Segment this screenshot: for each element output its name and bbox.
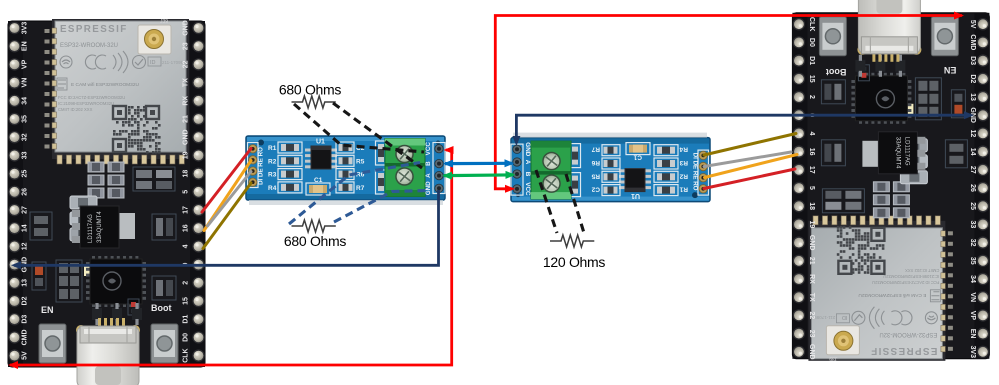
arrowhead red into module2 VCC	[505, 185, 515, 193]
wire gray: module1 DE toward pin16	[208, 172, 252, 227]
wire red 5V: right ESP32 5V along top, down to module2 VCC	[495, 16, 962, 189]
arrowhead navy into module2 GND	[512, 136, 520, 146]
dashed black pointer lower: across terminal to A row	[333, 103, 422, 168]
arrowhead red at right 5V pin	[954, 12, 964, 20]
arrowhead red at left 5V pin	[8, 361, 18, 369]
wire orange: ESP32-left pin16 to module1 RE	[204, 161, 251, 231]
svg-text:120 Ohms: 120 Ohms	[543, 254, 605, 270]
wire blue B line: module1 B to module2 A	[445, 162, 512, 166]
arrowhead green into module1 A	[442, 172, 452, 180]
dashed blue pointer to GND side	[334, 191, 429, 223]
wire green A line: module1 A to module2 B	[444, 173, 513, 177]
dashed blue pointer to R6	[289, 163, 420, 225]
wire navy GND: module1 GND down, across to left ESP32 GND	[14, 190, 439, 265]
arrowhead navy at left GND pin	[11, 261, 21, 269]
svg-text:680 Ohms: 680 Ohms	[284, 233, 346, 249]
annotation: 120 Ohms resistor symbol	[550, 235, 594, 247]
svg-text:680 Ohms: 680 Ohms	[279, 82, 341, 98]
arrowhead blue into module2 A	[505, 159, 515, 167]
wire red: ESP32-left pin17 to module1 RO	[202, 149, 251, 213]
annotation: bottom 680 Ohms resistor symbol (blue)	[292, 220, 336, 232]
wire olive: module2 DI to ESP32-right pin4	[704, 134, 796, 156]
dashed black pointer terminal screw B	[536, 170, 557, 233]
arrowhead red into module1 VCC	[444, 146, 454, 154]
RS485 module 1	[246, 136, 445, 205]
wire gray: module2 DE to ESP32-right pin16	[704, 152, 791, 167]
wire red 5V: left ESP32 5V along bottom, up to module1 VCC	[10, 150, 452, 365]
RS485 module 2 (rotated 180)	[511, 133, 710, 202]
annotation: top 680 Ohms resistor symbol	[292, 96, 336, 108]
wire olive: ESP32-left pin4 to module1 DI	[203, 183, 251, 249]
wire red: module2 RO to ESP32-right pin17	[704, 169, 795, 189]
wire orange: module2 RE to ESP32-right pin16 area	[705, 155, 798, 178]
dashed black pointer upper: 680 ohm pull-up resistor	[294, 104, 424, 152]
ESP32 board right (rotated 180)	[792, 0, 989, 361]
arrowhead green into module2 B	[506, 171, 516, 179]
arrowhead blue into module1 B	[443, 160, 453, 168]
wire navy GND: module2 GND up, across to right ESP32 GND	[516, 115, 971, 143]
ESP32 board left	[8, 19, 205, 385]
arrowhead navy at right GND pin	[964, 111, 974, 119]
dashed black pointer terminal screw A	[566, 174, 584, 233]
